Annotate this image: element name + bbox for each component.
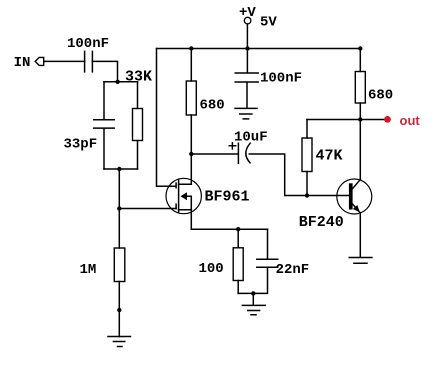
svg-text:10uF: 10uF — [234, 130, 268, 146]
svg-text:1M: 1M — [80, 262, 97, 278]
svg-text:33K: 33K — [125, 69, 152, 86]
svg-text:IN: IN — [14, 55, 31, 71]
svg-text:680: 680 — [368, 88, 393, 104]
svg-text:out: out — [400, 113, 421, 128]
svg-text:33pF: 33pF — [64, 137, 98, 153]
svg-text:BF240: BF240 — [299, 214, 344, 231]
svg-text:680: 680 — [200, 98, 225, 114]
svg-text:100nF: 100nF — [260, 71, 302, 87]
svg-text:100nF: 100nF — [67, 36, 109, 52]
svg-text:47K: 47K — [316, 147, 343, 164]
svg-text:100: 100 — [199, 261, 224, 277]
svg-text:5V: 5V — [260, 14, 277, 30]
svg-text:22nF: 22nF — [276, 262, 310, 278]
svg-text:BF961: BF961 — [205, 189, 250, 206]
svg-text:+V: +V — [239, 5, 256, 21]
